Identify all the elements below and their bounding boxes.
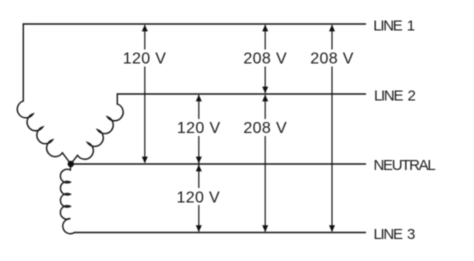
arrow 120V LINE1-NEUTRAL — [144, 25, 146, 163]
arrowhead down at LINE3 x=198.8 — [196, 225, 202, 232]
arrowhead up below NEUTRAL x=198.8 — [196, 165, 202, 172]
arrowhead up at LINE1 x=332 — [329, 25, 335, 32]
arrowhead up at LINE1 x=265.2 — [262, 25, 268, 32]
arrowhead down at LINE3 x=332 — [329, 225, 335, 232]
arrowhead down at NEUTRAL x=198.8 — [196, 157, 202, 164]
svg-text:LINE 3: LINE 3 — [374, 226, 416, 243]
arrow 208V LINE1-LINE3 — [331, 25, 333, 232]
svg-text:120 V: 120 V — [177, 120, 221, 137]
arrowhead down at LINE3 x=265.2 — [262, 225, 268, 232]
wire LINE 3 horizontal — [75, 232, 366, 234]
neutral junction node — [68, 161, 74, 167]
winding C (phase C coil, neutral to LINE3) — [60, 164, 74, 234]
arrow 208V LINE2-LINE3 — [264, 95, 266, 232]
wire left drop from LINE 1 — [22, 24, 24, 101]
arrowhead up at LINE2 x=198.8 — [196, 95, 202, 102]
svg-text:208 V: 208 V — [243, 120, 287, 137]
winding A (phase A coil, LINE1 to neutral) — [17, 101, 70, 164]
wire LINE 2 horizontal — [117, 93, 365, 95]
label backgrounds to break arrow lines — [121, 50, 356, 206]
svg-text:NEUTRAL: NEUTRAL — [374, 157, 436, 174]
svg-text:LINE 2: LINE 2 — [374, 88, 416, 105]
wire LINE 2 drop — [116, 94, 118, 104]
arrowhead down at NEUTRAL x=144.8 — [142, 157, 148, 164]
wire NEUTRAL horizontal — [71, 163, 366, 165]
arrowhead up at LINE1 x=144.8 — [142, 25, 148, 32]
svg-text:LINE 1: LINE 1 — [373, 18, 415, 35]
arrowhead down at LINE2 x=265.2 — [262, 87, 268, 94]
arrowhead up below LINE2 x=265.2 — [262, 95, 268, 102]
svg-text:208 V: 208 V — [243, 51, 287, 68]
svg-text:208 V: 208 V — [310, 51, 354, 68]
wire LINE 1 horizontal — [23, 23, 365, 25]
svg-text:120 V: 120 V — [177, 190, 221, 207]
arrow 208V LINE1-LINE2 — [264, 25, 266, 93]
svg-text:120 V: 120 V — [123, 51, 167, 68]
arrow 120V LINE2-NEUTRAL and NEUTRAL-LINE3 — [198, 95, 200, 232]
winding B (phase B coil, LINE2 to neutral) — [71, 104, 123, 164]
